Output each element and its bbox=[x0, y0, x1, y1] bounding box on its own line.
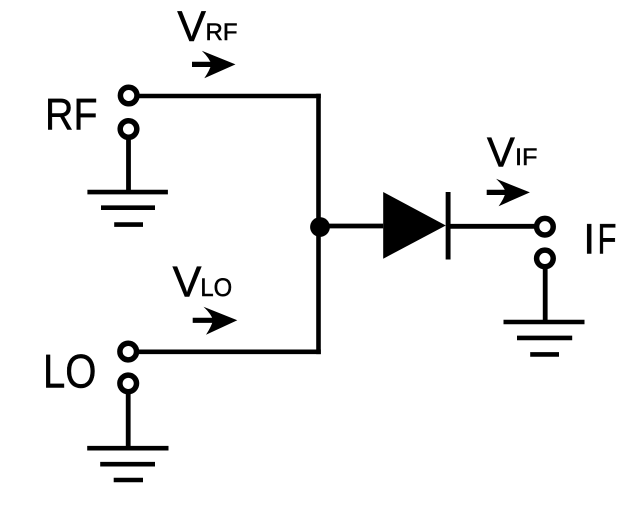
wire vertical bus lower segment bbox=[316, 227, 321, 355]
wire RF port to ground bbox=[126, 140, 131, 193]
svg-text:IF: IF bbox=[515, 144, 538, 171]
port IF terminal circle (line) bbox=[537, 218, 554, 235]
node junction dot bbox=[310, 217, 330, 237]
ground (RF) bbox=[87, 192, 167, 225]
svg-text:I: I bbox=[583, 216, 595, 264]
wire LO port to node (horizontal) bbox=[139, 349, 321, 354]
svg-text:RF: RF bbox=[45, 91, 98, 140]
port LO terminal circle (ground side) bbox=[120, 375, 137, 392]
port RF terminal circle (ground side) bbox=[120, 121, 137, 138]
svg-text:V: V bbox=[177, 3, 206, 51]
diode D1 anode triangle bbox=[383, 192, 446, 259]
port RF terminal circle (line) bbox=[120, 87, 137, 104]
wire diode cathode to IF port bbox=[448, 224, 535, 229]
port IF terminal circle (ground side) bbox=[537, 250, 554, 267]
svg-text:V: V bbox=[487, 128, 515, 175]
arrow VRF direction bbox=[192, 51, 236, 78]
svg-text:LO: LO bbox=[200, 274, 232, 302]
wire vertical bus upper segment bbox=[316, 94, 321, 227]
wire node to diode anode bbox=[319, 224, 384, 229]
svg-text:F: F bbox=[598, 216, 617, 264]
diode D1 cathode bar bbox=[446, 192, 451, 260]
wire RF port to node (horizontal) bbox=[139, 94, 321, 99]
svg-text:LO: LO bbox=[43, 346, 97, 399]
arrow VIF direction bbox=[487, 179, 530, 206]
ground (IF) bbox=[504, 322, 585, 354]
wire LO port to ground bbox=[126, 394, 131, 448]
wire IF port to ground bbox=[543, 269, 548, 322]
svg-text:V: V bbox=[173, 259, 202, 307]
port LO terminal circle (line) bbox=[120, 343, 137, 360]
arrow VLO direction bbox=[193, 307, 238, 335]
svg-text:RF: RF bbox=[206, 19, 238, 46]
ground (LO) bbox=[87, 448, 168, 480]
